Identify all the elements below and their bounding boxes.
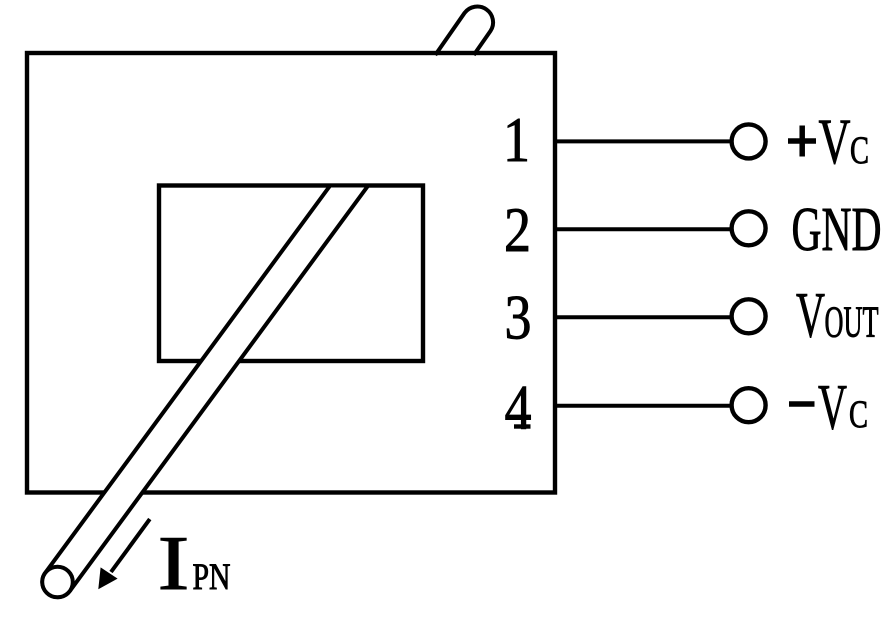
svg-text:PN: PN [193, 557, 231, 598]
label +Vc : plus sign horizontal bar [788, 138, 816, 144]
label +Vc : plus sign vertical bar [799, 126, 805, 157]
svg-text:3: 3 [505, 283, 532, 353]
label -Vc : minus sign [789, 401, 815, 407]
aperture window [159, 186, 423, 362]
current direction arrow shaft [111, 519, 150, 572]
svg-text:OUT: OUT [825, 297, 879, 346]
pin 4 number foot serif [514, 424, 531, 428]
svg-text:C: C [850, 129, 869, 172]
pin 2 lead wire [555, 227, 732, 231]
pin 1 lead wire [555, 139, 732, 143]
svg-text:V: V [796, 280, 825, 352]
pin 3 terminal circle [732, 299, 766, 333]
svg-text:V: V [818, 372, 847, 444]
svg-text:C: C [849, 393, 868, 436]
current direction arrowhead [98, 567, 117, 589]
svg-text:I: I [158, 520, 190, 606]
svg-text:2: 2 [504, 195, 531, 265]
primary conductor top stub (above sensor body) [435, 7, 493, 55]
primary conductor (rod) through window [42, 186, 368, 598]
pin 1 terminal circle [732, 124, 766, 158]
pin 4 terminal circle [732, 388, 766, 422]
pin 4 lead wire [555, 404, 732, 408]
svg-text:GND: GND [792, 196, 882, 264]
conductor end face circle [42, 567, 73, 598]
svg-text:V: V [819, 106, 851, 178]
pin 3 lead wire [555, 315, 732, 319]
sensor body outline [27, 53, 555, 493]
svg-text:1: 1 [503, 105, 530, 175]
pin 2 terminal circle [732, 211, 766, 245]
svg-text:4: 4 [505, 373, 532, 443]
